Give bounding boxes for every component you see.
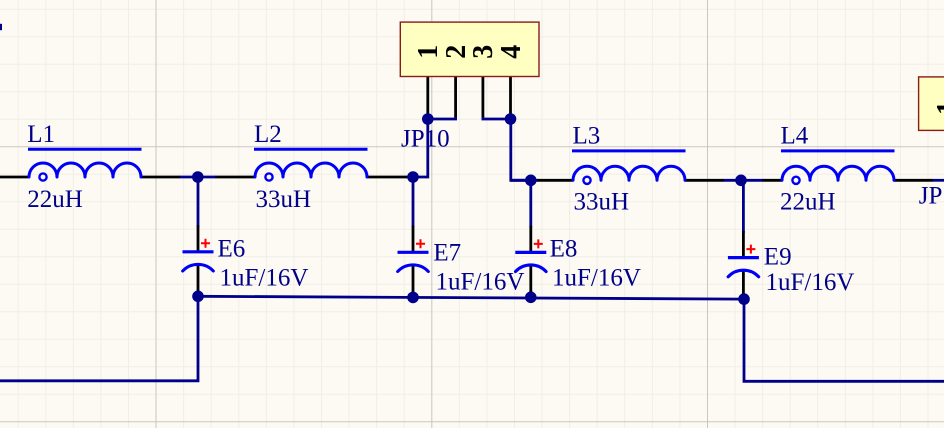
pin L2 left lead: [216, 176, 256, 179]
pin L4 right lead: [894, 179, 933, 182]
inductor L1: [27, 121, 141, 213]
pin L1 left lead: [0, 176, 29, 179]
pin E6 upper: [197, 225, 200, 251]
wire bottom bus: [198, 296, 744, 299]
wire JP10 pins 3-4 net drop: [483, 116, 531, 180]
capacitor E7: [398, 239, 525, 295]
inductor L4: [780, 123, 895, 216]
junction node J2: [407, 171, 419, 183]
junction JP10 net2 junction: [505, 113, 517, 125]
wire right rail: [744, 299, 944, 381]
pin L3 right lead: [685, 179, 724, 182]
svg-text:1: 1: [932, 101, 944, 115]
capacitor E9: [728, 243, 855, 296]
pin E7 lower: [412, 264, 415, 292]
wire stub at node J4: [723, 179, 763, 182]
connector JP10 body: [400, 22, 539, 76]
svg-text:JP10: JP10: [401, 126, 450, 153]
junction JP10 net1 junction: [422, 113, 434, 125]
svg-text:22uH: 22uH: [27, 186, 83, 213]
svg-text:E6: E6: [218, 236, 246, 263]
capacitor E8: [515, 236, 641, 292]
pin JP10 pin 4: [509, 77, 512, 116]
pin E9 lower: [742, 270, 745, 295]
svg-text:L1: L1: [27, 121, 55, 148]
svg-text:1: 1: [413, 45, 444, 59]
svg-text:JP: JP: [919, 182, 943, 209]
junction bus node B2: [407, 292, 419, 304]
svg-text:L4: L4: [781, 123, 809, 150]
junction bus node B3: [525, 292, 537, 304]
svg-text:1uF/16V: 1uF/16V: [436, 269, 525, 296]
wire E7 column upper: [412, 177, 415, 227]
pin JP10 pin 1: [426, 77, 429, 116]
inductor L2: [254, 121, 368, 213]
svg-text:1uF/16V: 1uF/16V: [220, 265, 309, 292]
wire stub at node J1: [180, 176, 217, 179]
junction bus node B1: [192, 291, 204, 303]
wire E6 column upper: [197, 177, 200, 227]
pin E8 lower: [529, 264, 532, 292]
svg-text:33uH: 33uH: [256, 186, 312, 213]
svg-text:22uH: 22uH: [780, 188, 836, 215]
wire E8 column lower: [529, 290, 532, 297]
pin E7 upper: [412, 226, 415, 252]
junction node J4: [735, 175, 747, 187]
pin L3 left lead: [538, 179, 574, 182]
wire stub at node J3: [511, 179, 538, 182]
pin JP10 pin 2: [454, 77, 457, 118]
svg-text:1uF/16V: 1uF/16V: [766, 269, 855, 296]
svg-text:L3: L3: [573, 123, 601, 150]
wire left rail: [0, 296, 198, 381]
svg-text:E9: E9: [764, 243, 792, 270]
pin L4 left lead: [763, 179, 783, 182]
pin E8 upper: [529, 226, 532, 252]
capacitor E6: [183, 236, 309, 292]
svg-text:E8: E8: [550, 236, 578, 263]
wire E9 column lower: [742, 296, 745, 300]
pin L2 right lead: [367, 176, 407, 179]
svg-text:L2: L2: [254, 121, 282, 148]
wire E7 column lower: [412, 290, 415, 297]
wire JP10 pins 1-2 net drop: [413, 116, 456, 177]
junction node J3: [525, 175, 537, 187]
junction bus node B4: [738, 293, 750, 305]
wire right edge stub: [932, 179, 944, 182]
svg-text:3: 3: [468, 45, 499, 59]
wire E8 column upper: [529, 180, 532, 227]
cropped text mark at left edge: [0, 24, 2, 30]
svg-text:33uH: 33uH: [574, 188, 630, 215]
wire stub at node J2: [407, 176, 414, 179]
svg-text:4: 4: [496, 45, 527, 59]
wire E6 column lower: [197, 290, 200, 297]
svg-text:E7: E7: [433, 240, 461, 267]
pin JP10 pin 3: [481, 77, 484, 118]
pin E6 lower: [197, 264, 200, 292]
pin E9 upper: [742, 231, 745, 257]
wire E9 column upper: [742, 180, 745, 232]
connector JP (partial) body: [919, 77, 944, 130]
junction node J1: [192, 171, 204, 183]
inductor L3: [572, 123, 686, 216]
svg-text:1uF/16V: 1uF/16V: [552, 265, 641, 292]
pin L1 right lead: [141, 176, 180, 179]
